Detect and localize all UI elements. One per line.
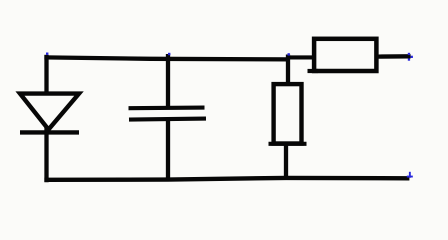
- wire capacitor branch bottom: [166, 119, 170, 181]
- terminal arrow output node: [408, 53, 413, 61]
- capacitor C1: [129, 108, 207, 120]
- diode D1: [20, 94, 79, 133]
- wire capacitor branch top: [166, 54, 170, 108]
- wire diode branch bottom: [44, 127, 48, 182]
- wire top rail stub to R2: [286, 55, 314, 59]
- terminal marker bottom-right node: [407, 172, 413, 178]
- wire bottom rail: [44, 178, 409, 180]
- node marker capacitor junction: [168, 53, 170, 55]
- wire resistor R1 bottom: [284, 144, 288, 180]
- wire junction to resistor R1: [286, 55, 290, 86]
- wire diode branch top: [44, 55, 48, 95]
- node marker resistor junction: [288, 53, 290, 55]
- node marker top-left corner: [46, 53, 48, 55]
- resistor R2 (horizontal): [308, 39, 377, 71]
- resistor R1 (vertical): [269, 84, 307, 144]
- wire R2 output: [379, 54, 411, 59]
- wire top rail: [44, 57, 290, 59]
